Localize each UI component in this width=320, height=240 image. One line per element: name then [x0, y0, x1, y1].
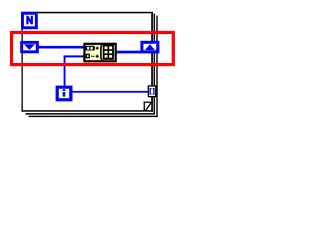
for-loop main frame left edge	[22, 12, 23, 112]
build array node box	[83, 43, 117, 63]
stacked-frame fold corner diagonal line	[145, 102, 152, 111]
N loop count terminal box	[21, 12, 38, 29]
i iteration terminal letter i	[63, 89, 66, 96]
for-loop main frame bottom edge	[22, 110, 153, 112]
wire: scalar wire vertical segment from i terminal	[64, 55, 66, 85]
N loop count terminal letter N	[26, 16, 33, 24]
wire: array wire from build array output to right shift register	[116, 51, 142, 54]
wire: scalar wire horizontal segment into build array lower input	[64, 55, 85, 57]
left shift register (down arrow)	[20, 41, 39, 53]
for-loop frame back page 2 right edge	[154, 14, 155, 115]
build array node: two dots	[91, 56, 94, 57]
stacked-frame fold corner horizontal line	[144, 102, 152, 103]
build array node: plus symbol bottom	[96, 55, 99, 58]
stacked-frame fold corner vertical line	[144, 102, 145, 112]
right shift register (up arrow)	[140, 41, 159, 54]
wire: scalar wire from i terminal to output tunnel	[72, 91, 149, 93]
for-loop frame back page 2 bottom edge	[26, 113, 156, 115]
for-loop main frame top edge	[22, 12, 153, 14]
wire: array wire from left shift register to build array input	[35, 46, 84, 49]
for-loop frame back page 3 right edge	[156, 16, 157, 118]
i iteration terminal box	[56, 86, 73, 102]
red highlight rectangle	[12, 33, 174, 65]
build array node: array element input glyph (box with two dotted squares)	[85, 46, 94, 51]
build array node: opening bracket	[101, 45, 102, 60]
build array node: output array grid 2x3	[103, 44, 114, 60]
build array node: plus symbol top	[96, 47, 99, 50]
build array node: scalar element input square	[86, 54, 89, 57]
for-loop main frame right edge	[151, 12, 153, 112]
for-loop frame back page 3 bottom edge	[29, 116, 158, 117]
output tunnel with index brackets	[148, 85, 157, 97]
